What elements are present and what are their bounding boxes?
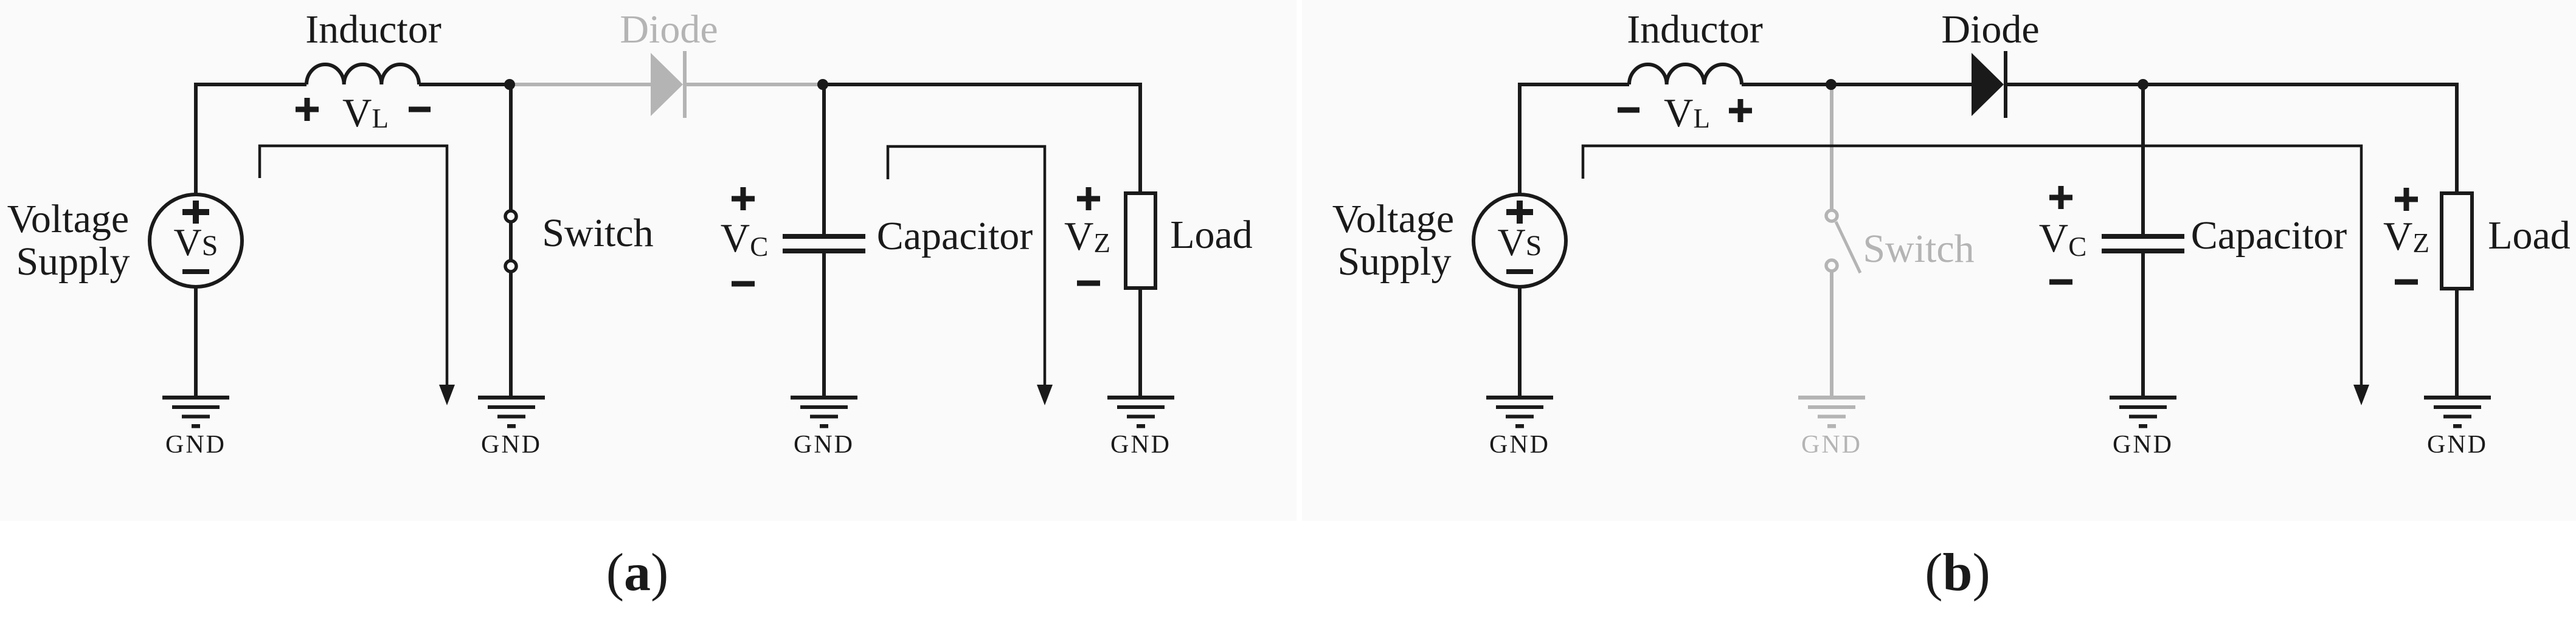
voltage source VS circle (b): [1473, 194, 1566, 287]
VS plus sign (a): [182, 201, 209, 224]
capacitor minus (b): [2049, 280, 2072, 285]
node dot: diode/capacitor junction (b): [2138, 79, 2148, 90]
svg-text:Load: Load: [2488, 213, 2571, 258]
capacitor C top plate (a): [783, 234, 865, 239]
inductor L (a): [306, 64, 419, 84]
svg-text:GND: GND: [1801, 431, 1862, 459]
node dot: inductor/switch junction (a): [504, 79, 515, 90]
svg-text:Inductor: Inductor: [305, 7, 441, 52]
svg-text:GND: GND: [1489, 431, 1550, 459]
load plus (a): [1077, 187, 1100, 210]
ground GND3 capacitor (a): [791, 396, 857, 428]
svg-text:Switch: Switch: [542, 211, 653, 255]
svg-text:Switch: Switch: [1863, 227, 1974, 271]
wire: switch branch vertical (a): [509, 84, 513, 396]
capacitor C top plate (b): [2102, 234, 2184, 239]
svg-text:GND: GND: [2113, 431, 2173, 459]
VS minus sign (b): [1506, 269, 1533, 274]
svg-text:Voltage: Voltage: [7, 197, 129, 241]
wire: load bottom to ground (b): [2455, 288, 2459, 396]
wire: switch node to diode anode (b): [1831, 83, 1972, 86]
wire: capacitor bottom plate to ground (b): [2141, 253, 2145, 396]
wire: capacitor node to load corner (b): [2143, 84, 2457, 193]
wire: switch node to diode anode, grey (a): [510, 83, 651, 86]
diode D triangle, grey/off (a): [651, 53, 683, 116]
wire: diode cathode to capacitor node (b): [2007, 83, 2143, 86]
svg-text:Capacitor: Capacitor: [877, 214, 1033, 258]
load R rectangle (b): [2442, 193, 2472, 289]
diode D triangle, on (b): [1972, 53, 2004, 116]
ground GND2 switch (a): [478, 396, 545, 428]
wire: supply to ground (b): [1518, 287, 1522, 396]
capacitor C bottom plate (b): [2102, 249, 2184, 253]
svg-text:Supply: Supply: [16, 239, 130, 284]
current loop arrow 2, capacitor-load (a): [888, 146, 1045, 386]
capacitor plus (a): [732, 187, 755, 210]
node dot: inductor/switch junction (b): [1826, 79, 1837, 90]
load minus (b): [2395, 280, 2418, 285]
inductor polarity minus (a): [409, 107, 431, 112]
wire: capacitor bottom plate to ground (a): [822, 253, 826, 396]
capacitor minus (a): [732, 281, 755, 287]
svg-text:(b): (b): [1925, 543, 1990, 602]
svg-text:Inductor: Inductor: [1627, 7, 1763, 52]
svg-text:GND: GND: [1110, 431, 1171, 459]
load R rectangle (a): [1126, 193, 1155, 288]
svg-text:Load: Load: [1170, 213, 1253, 257]
wire: supply to inductor (b): [1520, 84, 1629, 193]
svg-text:Supply: Supply: [1337, 239, 1451, 284]
svg-text:Capacitor: Capacitor: [2191, 213, 2347, 258]
inductor polarity minus (b): [1618, 108, 1639, 113]
ground GND1 supply (a): [162, 396, 229, 428]
wire: diode cathode to capacitor node, grey (a): [687, 83, 823, 86]
switch S terminal circle top (a): [505, 211, 516, 222]
panel (b) background: [1302, 0, 2576, 521]
capacitor C bottom plate (a): [783, 249, 865, 253]
ground GND3 capacitor (b): [2110, 396, 2176, 428]
ground GND1 supply (b): [1486, 396, 1553, 428]
node dot: diode/capacitor junction (a): [817, 79, 828, 90]
svg-text:Diode: Diode: [620, 7, 718, 52]
svg-text:GND: GND: [2427, 431, 2488, 459]
svg-text:Diode: Diode: [1941, 7, 2039, 52]
ground GND2 switch, grey (b): [1798, 396, 1865, 428]
svg-text:Voltage: Voltage: [1332, 197, 1454, 241]
wire: capacitor node down to top plate (b): [2141, 84, 2145, 234]
svg-text:GND: GND: [481, 431, 542, 459]
capacitor plus (b): [2049, 186, 2072, 209]
wire: switch branch upper, grey (b): [1830, 84, 1833, 211]
current loop arrow, full loop (b): [1583, 146, 2361, 386]
load minus (a): [1077, 281, 1100, 286]
current loop arrow 1, supply-inductor-switch (a): [260, 146, 447, 386]
wire: supply to ground (a): [194, 287, 198, 396]
inductor L (b): [1629, 64, 1742, 84]
panel (a) background: [0, 0, 1297, 521]
diode D cathode bar (b): [2004, 51, 2007, 118]
switch S terminal circle bottom (a): [505, 261, 516, 272]
switch S terminal circle bottom, grey (b): [1826, 260, 1837, 271]
load plus (b): [2395, 188, 2418, 211]
svg-text:GND: GND: [165, 431, 226, 459]
wire: capacitor node down to top plate (a): [822, 84, 826, 234]
ground GND4 load (a): [1107, 396, 1174, 428]
wire: inductor to switch node (b): [1742, 83, 1831, 86]
wire: switch branch lower to ground, grey (b): [1830, 272, 1833, 396]
svg-text:(a): (a): [606, 543, 669, 602]
svg-text:GND: GND: [794, 431, 854, 459]
switch S terminal circle top, grey (b): [1826, 210, 1837, 221]
switch S open blade, grey (b): [1836, 222, 1860, 273]
wire: supply to inductor (a): [196, 84, 306, 193]
wire: capacitor node to load corner (a): [823, 84, 1140, 193]
ground GND4 load (b): [2424, 396, 2491, 428]
VS plus sign (b): [1506, 201, 1533, 224]
inductor polarity plus (a): [296, 98, 319, 121]
wire: inductor to switch node (a): [419, 83, 510, 86]
VS minus sign (a): [182, 269, 209, 274]
diode D cathode bar, grey (a): [683, 51, 687, 118]
inductor polarity plus (b): [1729, 99, 1752, 122]
wire: load bottom to ground (a): [1138, 288, 1142, 396]
voltage source VS circle (a): [150, 194, 242, 287]
